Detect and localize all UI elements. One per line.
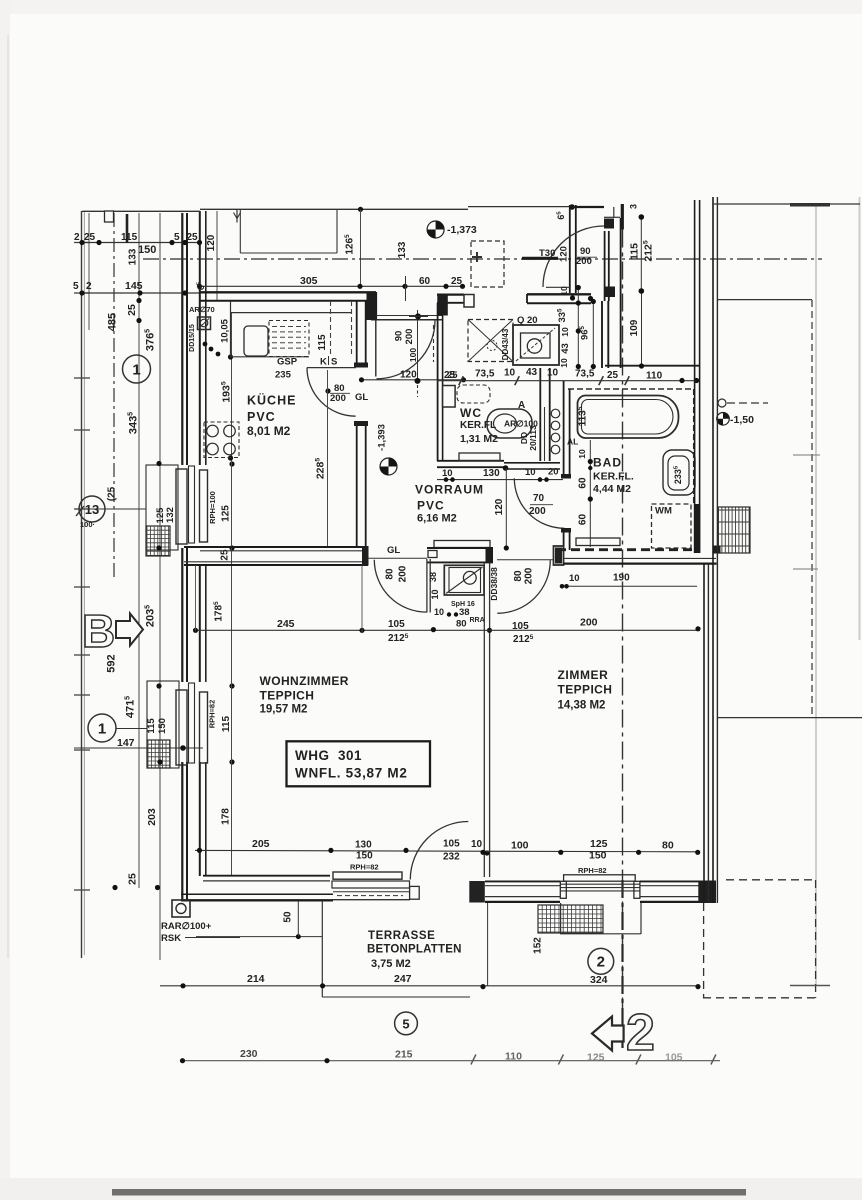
svg-text:RSK: RSK xyxy=(161,933,181,944)
svg-text:K: K xyxy=(320,357,327,368)
svg-text:110: 110 xyxy=(646,371,663,382)
svg-text:10: 10 xyxy=(559,286,569,296)
svg-text:10: 10 xyxy=(525,467,536,478)
svg-text:-1,373: -1,373 xyxy=(447,224,477,236)
svg-text:20/113: 20/113 xyxy=(528,425,538,451)
svg-text:8,01 M2: 8,01 M2 xyxy=(247,424,291,438)
svg-text:6,16 M2: 6,16 M2 xyxy=(417,513,457,525)
svg-text:2: 2 xyxy=(597,954,605,971)
svg-text:120: 120 xyxy=(559,246,570,262)
svg-text:215: 215 xyxy=(395,1049,413,1061)
svg-text:DD15/15: DD15/15 xyxy=(189,324,196,352)
svg-text:25: 25 xyxy=(187,232,199,243)
svg-text:RAR∅100+: RAR∅100+ xyxy=(161,921,212,932)
svg-text:TEPPICH: TEPPICH xyxy=(558,683,613,697)
svg-text:RPH=100: RPH=100 xyxy=(208,491,217,524)
svg-text:T30: T30 xyxy=(539,248,555,259)
svg-text:133: 133 xyxy=(397,241,408,258)
svg-text:BETONPLATTEN: BETONPLATTEN xyxy=(367,944,462,956)
svg-text:73,5: 73,5 xyxy=(475,369,495,380)
svg-text:105: 105 xyxy=(388,619,405,630)
svg-text:230: 230 xyxy=(240,1048,258,1060)
svg-text:60: 60 xyxy=(578,477,589,489)
svg-text:RPH=82: RPH=82 xyxy=(578,866,607,875)
svg-text:RPH=82: RPH=82 xyxy=(350,863,379,872)
svg-text:200: 200 xyxy=(397,565,408,582)
svg-text:125: 125 xyxy=(221,505,232,522)
svg-text:73,5: 73,5 xyxy=(575,369,595,380)
svg-text:1: 1 xyxy=(132,362,140,379)
svg-text:10: 10 xyxy=(504,368,516,379)
svg-text:Q 20: Q 20 xyxy=(517,315,538,326)
svg-text:115: 115 xyxy=(628,243,640,260)
svg-text:247: 247 xyxy=(394,973,412,985)
svg-text:25: 25 xyxy=(444,370,456,381)
svg-text:50: 50 xyxy=(283,911,294,923)
svg-text:14,38 M2: 14,38 M2 xyxy=(558,700,606,712)
svg-text:25: 25 xyxy=(126,304,138,316)
svg-text:1: 1 xyxy=(98,721,106,738)
svg-text:TERRASSE: TERRASSE xyxy=(368,930,435,942)
svg-text:90: 90 xyxy=(393,331,404,342)
svg-text:150: 150 xyxy=(356,851,373,862)
svg-text:105: 105 xyxy=(665,1052,683,1064)
svg-text:80: 80 xyxy=(456,619,467,630)
svg-text:A: A xyxy=(518,400,525,411)
svg-text:150: 150 xyxy=(589,850,607,862)
svg-text:5: 5 xyxy=(174,232,180,243)
svg-text:200: 200 xyxy=(529,506,546,517)
svg-text:25: 25 xyxy=(84,232,96,243)
svg-text:115: 115 xyxy=(221,715,232,732)
svg-text:10: 10 xyxy=(560,327,570,337)
svg-text:3,75 M2: 3,75 M2 xyxy=(371,958,411,970)
svg-text:2: 2 xyxy=(86,281,92,292)
svg-text:10: 10 xyxy=(547,368,559,379)
svg-text:10: 10 xyxy=(569,573,580,584)
svg-text:3: 3 xyxy=(628,204,638,209)
svg-text:25: 25 xyxy=(607,370,619,381)
svg-text:ZIMMER: ZIMMER xyxy=(558,668,609,682)
svg-text:10: 10 xyxy=(577,449,587,459)
svg-text:S: S xyxy=(331,357,337,368)
svg-text:25: 25 xyxy=(451,276,463,287)
svg-text:200: 200 xyxy=(524,567,535,584)
svg-text:1,31 M2: 1,31 M2 xyxy=(460,433,498,445)
svg-text:TEPPICH: TEPPICH xyxy=(260,689,315,703)
svg-text:200: 200 xyxy=(404,329,415,345)
svg-text:43: 43 xyxy=(526,367,538,378)
svg-text:B: B xyxy=(82,605,115,657)
svg-text:60: 60 xyxy=(419,276,431,287)
svg-text:10: 10 xyxy=(442,468,453,479)
svg-text:324: 324 xyxy=(590,974,608,986)
svg-text:115: 115 xyxy=(146,718,157,734)
svg-text:214: 214 xyxy=(247,973,265,985)
svg-text:RRA: RRA xyxy=(470,617,485,624)
svg-text:5: 5 xyxy=(402,1017,409,1032)
svg-text:152: 152 xyxy=(533,937,544,954)
svg-text:147: 147 xyxy=(117,737,135,749)
svg-text:(25: (25 xyxy=(107,486,118,501)
svg-text:130: 130 xyxy=(355,840,372,851)
svg-text:305: 305 xyxy=(300,275,318,287)
svg-text:80: 80 xyxy=(513,570,524,582)
svg-text:110: 110 xyxy=(505,1051,522,1063)
svg-text:232: 232 xyxy=(443,852,460,863)
svg-text:WM: WM xyxy=(655,506,672,517)
svg-text:178: 178 xyxy=(221,808,232,825)
svg-text:120: 120 xyxy=(206,234,217,251)
svg-text:60: 60 xyxy=(578,514,589,526)
svg-text:10: 10 xyxy=(434,607,444,617)
svg-text:203: 203 xyxy=(146,808,158,826)
svg-text:WOHNZIMMER: WOHNZIMMER xyxy=(260,674,349,688)
svg-text:38: 38 xyxy=(428,572,438,582)
svg-text:120: 120 xyxy=(400,370,417,381)
svg-text:PVC: PVC xyxy=(247,410,276,424)
svg-text:10: 10 xyxy=(559,358,569,368)
svg-text:130: 130 xyxy=(483,468,500,479)
svg-text:25: 25 xyxy=(126,873,138,885)
svg-text:10: 10 xyxy=(471,839,483,850)
svg-text:KER.FL: KER.FL xyxy=(460,420,496,431)
svg-text:DD38/38: DD38/38 xyxy=(489,567,499,601)
svg-text:DD43/43: DD43/43 xyxy=(501,328,510,360)
svg-text:GL: GL xyxy=(355,392,368,403)
svg-text:200: 200 xyxy=(330,393,346,404)
svg-text:5: 5 xyxy=(73,281,79,292)
svg-text:2: 2 xyxy=(626,1004,655,1062)
svg-text:80: 80 xyxy=(662,840,674,852)
svg-text:120: 120 xyxy=(494,498,505,515)
svg-text:105: 105 xyxy=(443,839,460,850)
svg-text:125: 125 xyxy=(587,1052,605,1064)
svg-text:2: 2 xyxy=(74,232,80,243)
svg-text:38: 38 xyxy=(459,607,470,618)
svg-text:WC: WC xyxy=(460,406,482,420)
svg-text:70: 70 xyxy=(533,493,545,504)
svg-text:205: 205 xyxy=(252,838,270,850)
svg-text:-1,50: -1,50 xyxy=(730,414,754,426)
svg-text:485: 485 xyxy=(106,313,118,331)
svg-text:115: 115 xyxy=(317,334,328,351)
svg-text:-1,393: -1,393 xyxy=(377,424,388,451)
svg-text:VORRAUM: VORRAUM xyxy=(415,483,484,497)
svg-text:AR∅70: AR∅70 xyxy=(189,305,215,314)
svg-text:PVC: PVC xyxy=(417,499,445,513)
svg-text:RPH=82: RPH=82 xyxy=(207,700,216,729)
svg-text:KÜCHE: KÜCHE xyxy=(247,393,296,408)
svg-text:BAD: BAD xyxy=(593,456,622,470)
svg-text:200: 200 xyxy=(580,617,598,629)
svg-text:WHG 301: WHG 301 xyxy=(295,748,362,763)
svg-text:245: 245 xyxy=(277,618,295,630)
svg-text:100: 100 xyxy=(408,348,418,362)
svg-text:150: 150 xyxy=(138,244,156,256)
svg-text:10,05: 10,05 xyxy=(220,318,231,342)
svg-text:43: 43 xyxy=(560,343,571,354)
svg-text:100: 100 xyxy=(511,840,529,852)
svg-text:145: 145 xyxy=(125,280,143,292)
svg-text:125: 125 xyxy=(590,838,608,850)
svg-text:80: 80 xyxy=(385,568,396,580)
svg-text:105: 105 xyxy=(512,621,529,632)
svg-text:GSP: GSP xyxy=(277,357,298,368)
svg-text:4,44 M2: 4,44 M2 xyxy=(593,483,631,495)
svg-text:132: 132 xyxy=(165,507,176,523)
svg-text:WNFL. 53,87 M2: WNFL. 53,87 M2 xyxy=(295,766,408,781)
svg-text:150: 150 xyxy=(157,718,168,734)
svg-text:GL: GL xyxy=(387,545,400,556)
svg-text:115: 115 xyxy=(121,232,138,243)
svg-text:20: 20 xyxy=(548,467,559,478)
svg-text:109: 109 xyxy=(629,319,640,336)
svg-text:KER.FL.: KER.FL. xyxy=(593,471,634,483)
svg-text:592: 592 xyxy=(105,654,117,672)
svg-text:19,57 M2: 19,57 M2 xyxy=(260,704,308,716)
svg-text:133: 133 xyxy=(128,248,139,265)
svg-text:10: 10 xyxy=(430,589,440,599)
svg-text:235: 235 xyxy=(275,370,292,381)
svg-text:190: 190 xyxy=(613,573,630,584)
